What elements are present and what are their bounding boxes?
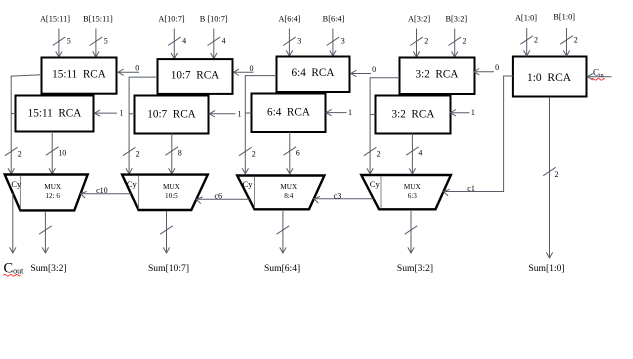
wire carry pair from stage 3 RCAs down to MUX Cy input, bus slash 2 bbox=[239, 76, 277, 174]
svg-text:1: 1 bbox=[471, 108, 475, 117]
wire carry pair from stage 2 RCAs down to MUX Cy input, bus slash 2 bbox=[123, 77, 158, 174]
RCA block stage 3 carry-1 (6:4 RCA) bbox=[252, 94, 326, 133]
svg-text:c3: c3 bbox=[334, 192, 342, 201]
constant 0 carry-in arrow into stage 3 carry-0 RCA bbox=[351, 65, 376, 77]
label Sum[3:2] under MUX 4 bbox=[397, 263, 433, 274]
svg-text:6:4 RCA: 6:4 RCA bbox=[292, 67, 335, 79]
svg-text:0: 0 bbox=[250, 64, 254, 73]
svg-text:4: 4 bbox=[418, 149, 422, 158]
svg-text:B[3:2]: B[3:2] bbox=[445, 15, 467, 24]
svg-text:A[10:7]: A[10:7] bbox=[158, 15, 185, 24]
RCA block stage 5 (1:0 RCA) bbox=[513, 57, 587, 97]
wire c10 from MUX 2 to MUX 1 select bbox=[81, 186, 131, 198]
svg-text:Sum[6:4]: Sum[6:4] bbox=[264, 263, 300, 274]
svg-text:8: 8 bbox=[178, 149, 182, 158]
svg-text:0: 0 bbox=[135, 64, 139, 73]
RCA block stage 1 carry-1 (15:11 RCA) bbox=[16, 96, 94, 132]
MUX 2 trapezoid (10:5 multiplexer) bbox=[122, 175, 208, 210]
svg-text:2: 2 bbox=[574, 35, 578, 44]
RCA block stage 2 carry-1 (10:7 RCA) bbox=[135, 96, 209, 134]
constant 0 carry-in arrow into stage 4 carry-0 RCA bbox=[474, 63, 499, 75]
svg-text:Cin: Cin bbox=[593, 67, 604, 79]
wire A input stage 1 with bus slash 5 bbox=[53, 29, 71, 58]
label A input stage 3 bbox=[278, 15, 300, 24]
svg-text:10: 10 bbox=[58, 149, 66, 158]
MUX 1 trapezoid (12:6 multiplexer) bbox=[5, 175, 88, 211]
svg-text:c10: c10 bbox=[96, 186, 108, 195]
spellcheck underline under Cout bbox=[3, 275, 20, 277]
svg-text:3: 3 bbox=[341, 37, 345, 46]
wire c1 from 1:0 RCA carry-out to MUX 4 select bbox=[443, 76, 512, 196]
svg-text:Sum[3:2]: Sum[3:2] bbox=[397, 263, 433, 274]
svg-text:A[6:4]: A[6:4] bbox=[278, 15, 300, 24]
wire sum output from MUX 4 with slash bbox=[405, 211, 418, 253]
svg-text:8:4: 8:4 bbox=[284, 192, 294, 200]
wire B input stage 4 with bus slash 2 bbox=[448, 29, 466, 58]
svg-text:3: 3 bbox=[297, 37, 301, 46]
wire A input stage 4 with bus slash 2 bbox=[410, 29, 428, 58]
spellcheck underline under Cin bbox=[591, 79, 605, 81]
wire B[1:0] input with bus slash 2 bbox=[560, 28, 578, 56]
svg-text:6: 6 bbox=[296, 149, 300, 158]
svg-text:B[6:4]: B[6:4] bbox=[323, 15, 345, 24]
MUX 3 trapezoid (8:4 multiplexer) bbox=[237, 176, 324, 210]
constant 0 carry-in arrow into stage 2 carry-0 RCA bbox=[233, 64, 253, 76]
svg-text:10:5: 10:5 bbox=[165, 192, 178, 200]
svg-text:A[1:0]: A[1:0] bbox=[515, 14, 537, 23]
label B input stage 2 bbox=[200, 15, 228, 24]
svg-text:2: 2 bbox=[534, 35, 538, 44]
svg-text:5: 5 bbox=[104, 37, 108, 46]
wire Cout output from MUX 1 Cy section bbox=[10, 193, 16, 253]
label A input stage 2 bbox=[158, 15, 185, 24]
svg-text:B[15:11]: B[15:11] bbox=[83, 15, 113, 24]
wire sum pair from stage 1 RCAs down to MUX input, bus slash 10 bbox=[46, 132, 66, 174]
svg-text:6:3: 6:3 bbox=[408, 192, 418, 200]
label Cy inside MUX 4 bbox=[370, 179, 381, 189]
svg-text:c1: c1 bbox=[467, 184, 475, 193]
svg-text:2: 2 bbox=[424, 37, 428, 46]
label Sum[3:2] under MUX 1 bbox=[30, 263, 66, 274]
svg-text:Cy: Cy bbox=[11, 179, 22, 189]
svg-text:Cy: Cy bbox=[370, 179, 381, 189]
label MUX 4 ratio 6:3 bbox=[408, 192, 418, 200]
svg-text:A[15:11]: A[15:11] bbox=[40, 15, 70, 24]
label MUX 2 name bbox=[163, 183, 181, 191]
MUX 4 trapezoid (6:3 multiplexer) bbox=[361, 175, 451, 209]
svg-text:MUX: MUX bbox=[163, 183, 181, 191]
svg-text:1: 1 bbox=[238, 109, 242, 118]
wire sum output from MUX 3 with slash bbox=[277, 211, 290, 253]
label MUX 3 ratio 8:4 bbox=[284, 192, 294, 200]
svg-text:2: 2 bbox=[463, 37, 467, 46]
label Sum[6:4] under MUX 3 bbox=[264, 263, 300, 274]
wire sum pair from stage 4 RCAs down to MUX input, bus slash 4 bbox=[406, 134, 422, 174]
label B[1:0] bbox=[553, 13, 575, 22]
wire B input stage 2 with bus slash 4 bbox=[208, 29, 226, 59]
label MUX 1 name bbox=[44, 183, 62, 191]
svg-text:4: 4 bbox=[222, 37, 226, 46]
svg-text:6:4 RCA: 6:4 RCA bbox=[267, 107, 310, 119]
svg-text:0: 0 bbox=[372, 65, 376, 74]
label B input stage 3 bbox=[323, 15, 345, 24]
constant 1 carry-in arrow into stage 1 carry-1 RCA bbox=[95, 109, 124, 118]
svg-text:2: 2 bbox=[377, 150, 381, 159]
wire c3 from MUX 4 to MUX 3 select bbox=[314, 192, 374, 203]
svg-text:4: 4 bbox=[182, 37, 186, 46]
RCA block stage 2 carry-0 (10:7 RCA) bbox=[158, 59, 233, 94]
svg-text:Cy: Cy bbox=[127, 179, 138, 189]
svg-text:A[3:2]: A[3:2] bbox=[408, 15, 430, 24]
wire A input stage 3 with bus slash 3 bbox=[283, 29, 301, 57]
label Cy inside MUX 1 bbox=[11, 179, 22, 189]
svg-text:MUX: MUX bbox=[44, 183, 62, 191]
svg-text:B [10:7]: B [10:7] bbox=[200, 15, 228, 24]
label B input stage 4 bbox=[445, 15, 467, 24]
label A[1:0] bbox=[515, 14, 537, 23]
label Cy inside MUX 2 bbox=[127, 179, 138, 189]
wire sum output from MUX 1 with slash bbox=[39, 211, 52, 253]
wire B input stage 1 with bus slash 5 bbox=[90, 29, 108, 58]
svg-text:c6: c6 bbox=[215, 192, 223, 201]
label B input stage 1 bbox=[83, 15, 113, 24]
wire B input stage 3 with bus slash 3 bbox=[327, 29, 345, 57]
svg-text:12: 6: 12: 6 bbox=[45, 192, 60, 200]
label MUX 1 ratio 12: 6 bbox=[45, 192, 60, 200]
svg-text:15:11 RCA: 15:11 RCA bbox=[52, 68, 106, 80]
label MUX 3 name bbox=[280, 183, 298, 191]
svg-text:1: 1 bbox=[348, 108, 352, 117]
Cin input arrow into 1:0 RCA bbox=[587, 67, 611, 80]
svg-text:MUX: MUX bbox=[280, 183, 298, 191]
RCA block stage 4 carry-1 (3:2 RCA) bbox=[376, 96, 451, 134]
svg-text:2: 2 bbox=[136, 150, 140, 159]
svg-text:2: 2 bbox=[252, 150, 256, 159]
RCA block stage 3 carry-0 (6:4 RCA) bbox=[277, 57, 350, 93]
label Sum[1:0] bbox=[528, 263, 564, 274]
label MUX 4 name bbox=[404, 183, 422, 191]
label A input stage 4 bbox=[408, 15, 430, 24]
wire A[1:0] input with bus slash 2 bbox=[520, 28, 538, 56]
RCA block stage 1 carry-0 (15:11 RCA) bbox=[42, 58, 117, 94]
svg-text:B[1:0]: B[1:0] bbox=[553, 13, 575, 22]
wire carry pair from stage 1 RCAs down to MUX Cy input, bus slash 2 bbox=[5, 75, 42, 174]
svg-text:Cy: Cy bbox=[243, 179, 254, 189]
svg-text:MUX: MUX bbox=[404, 183, 422, 191]
svg-text:Sum[1:0]: Sum[1:0] bbox=[528, 263, 564, 274]
wire A input stage 2 with bus slash 4 bbox=[168, 29, 186, 59]
wire sum pair from stage 2 RCAs down to MUX input, bus slash 8 bbox=[166, 134, 182, 174]
wire carry pair from stage 4 RCAs down to MUX Cy input, bus slash 2 bbox=[364, 78, 400, 174]
svg-text:Cout: Cout bbox=[4, 261, 25, 277]
constant 0 carry-in arrow into stage 1 carry-0 RCA bbox=[118, 64, 139, 76]
wire c6 from MUX 3 to MUX 2 select bbox=[196, 192, 249, 204]
label Sum[10:7] under MUX 2 bbox=[148, 263, 189, 274]
constant 1 carry-in arrow into stage 4 carry-1 RCA bbox=[450, 108, 475, 117]
svg-text:10:7 RCA: 10:7 RCA bbox=[171, 69, 220, 81]
wire sum pair from stage 3 RCAs down to MUX input, bus slash 6 bbox=[284, 132, 300, 174]
svg-text:0: 0 bbox=[495, 63, 499, 72]
wire Sum[1:0] output from 1:0 RCA, bus slash 2 bbox=[543, 97, 558, 258]
svg-text:3:2 RCA: 3:2 RCA bbox=[416, 69, 459, 81]
svg-text:Sum[10:7]: Sum[10:7] bbox=[148, 263, 189, 274]
constant 1 carry-in arrow into stage 2 carry-1 RCA bbox=[209, 109, 241, 118]
svg-text:Sum[3:2]: Sum[3:2] bbox=[30, 263, 66, 274]
svg-text:1: 1 bbox=[119, 109, 123, 118]
svg-text:2: 2 bbox=[18, 150, 22, 159]
label A input stage 1 bbox=[40, 15, 70, 24]
RCA block stage 4 carry-0 (3:2 RCA) bbox=[400, 58, 475, 95]
svg-text:3:2 RCA: 3:2 RCA bbox=[392, 108, 435, 120]
constant 1 carry-in arrow into stage 3 carry-1 RCA bbox=[326, 108, 352, 117]
label Cy inside MUX 3 bbox=[243, 179, 254, 189]
svg-text:5: 5 bbox=[67, 37, 71, 46]
svg-text:2: 2 bbox=[555, 170, 559, 179]
wire sum output from MUX 2 with slash bbox=[160, 211, 173, 253]
label MUX 2 ratio 10:5 bbox=[165, 192, 178, 200]
svg-text:1:0 RCA: 1:0 RCA bbox=[527, 72, 572, 84]
svg-text:15:11 RCA: 15:11 RCA bbox=[28, 107, 82, 119]
label Cout bbox=[4, 261, 25, 277]
svg-text:10:7 RCA: 10:7 RCA bbox=[147, 108, 196, 120]
